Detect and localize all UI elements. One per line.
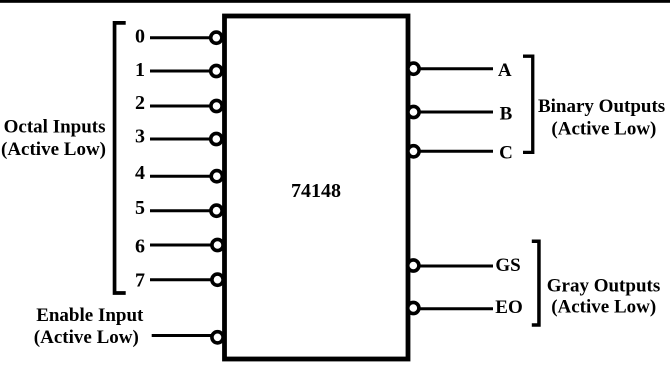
wire enable input <box>152 334 211 337</box>
svg-text:B: B <box>500 104 513 125</box>
wire input 1 <box>150 70 210 73</box>
bubble input 0 <box>211 32 222 43</box>
svg-text:(Active Low): (Active Low) <box>551 297 656 318</box>
bubble output B <box>408 106 419 117</box>
svg-text:(Active Low): (Active Low) <box>1 139 106 160</box>
bubble enable input <box>212 332 223 343</box>
svg-text:C: C <box>499 143 513 164</box>
bubble output EO <box>408 302 419 313</box>
octal inputs bracket <box>115 23 126 293</box>
svg-text:2: 2 <box>135 92 145 114</box>
svg-text:5: 5 <box>135 197 145 219</box>
wire input 0 <box>150 36 210 39</box>
bubble input 6 <box>212 239 223 250</box>
bubble input 3 <box>211 133 222 144</box>
svg-text:3: 3 <box>135 126 145 148</box>
wire input 6 <box>150 244 211 247</box>
svg-text:6: 6 <box>135 236 145 258</box>
bubble input 1 <box>211 65 222 76</box>
bubble input 5 <box>211 205 222 216</box>
svg-text:A: A <box>498 60 512 81</box>
svg-text:GS: GS <box>495 255 520 276</box>
svg-text:4: 4 <box>135 162 145 184</box>
bubble input 7 <box>212 274 223 285</box>
svg-text:74148: 74148 <box>291 180 341 202</box>
wire output B <box>420 111 493 114</box>
wire output C <box>420 150 493 153</box>
svg-text:(Active Low): (Active Low) <box>34 327 139 348</box>
gray outputs bracket <box>532 241 539 325</box>
wire output EO <box>419 307 493 310</box>
bubble output C <box>408 146 419 157</box>
wire output GS <box>419 265 493 268</box>
top border line <box>0 0 670 3</box>
svg-text:1: 1 <box>135 59 145 81</box>
svg-text:Enable Input: Enable Input <box>36 305 144 326</box>
IC body 74148 <box>225 16 409 359</box>
bubble input 4 <box>211 171 222 182</box>
bubble output A <box>408 63 419 74</box>
wire input 5 <box>150 209 210 212</box>
wire input 2 <box>150 105 210 108</box>
svg-text:Binary Outputs: Binary Outputs <box>538 96 665 117</box>
binary outputs bracket <box>523 56 533 152</box>
svg-text:7: 7 <box>135 270 145 292</box>
svg-text:0: 0 <box>135 26 145 48</box>
svg-text:(Active Low): (Active Low) <box>551 119 656 140</box>
bubble input 2 <box>211 100 222 111</box>
bubble output GS <box>408 260 419 271</box>
wire input 4 <box>150 175 210 178</box>
wire input 7 <box>150 278 211 281</box>
svg-text:Octal Inputs: Octal Inputs <box>4 116 106 137</box>
svg-text:EO: EO <box>495 297 522 318</box>
wire output A <box>420 67 493 70</box>
wire input 3 <box>150 138 210 141</box>
svg-text:Gray Outputs: Gray Outputs <box>547 276 661 297</box>
